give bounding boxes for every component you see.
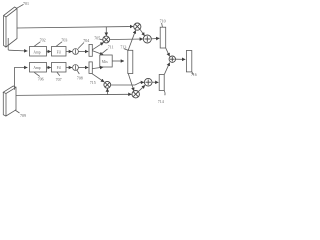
wire block 711 to phase block 713 (112, 60, 124, 62)
svg-text:702: 702 (40, 37, 46, 42)
svg-text:701: 701 (23, 1, 29, 6)
wire panel to amp 706 (15, 68, 28, 90)
block L (lower splitter) (89, 62, 92, 74)
final summer (169, 56, 175, 62)
wire 705 to mixer 709 (92, 42, 103, 49)
wire summer 1 to filter 710b (151, 37, 159, 40)
label 713 (120, 44, 128, 50)
label 703 (56, 37, 67, 46)
antenna panel 701 (4, 7, 17, 47)
wire summer 2 to bottom filter (152, 81, 158, 83)
svg-text:707: 707 (56, 77, 62, 82)
wire bottom filter to final summer (164, 63, 169, 75)
wire L to mixer C (92, 74, 104, 82)
output block 716 (186, 51, 191, 72)
wire 708 to block L (78, 67, 88, 69)
wire phase block 713 to mixer 710 (128, 30, 135, 50)
summer 1 (143, 35, 151, 43)
label 702 (34, 37, 45, 46)
label 716 (191, 72, 197, 77)
svg-text:713: 713 (120, 44, 126, 49)
antenna panel bottom (3, 86, 16, 116)
phase block 713 (128, 50, 133, 73)
wire panel 701 to amp 702 (8, 38, 27, 51)
svg-text:705: 705 (94, 35, 100, 40)
svg-text:703: 703 (61, 37, 67, 42)
filter block bottom right (159, 75, 164, 91)
wire 705 to block 711 (92, 51, 103, 55)
wire junction drop to mixer 709 (105, 27, 107, 36)
block 705 (upper splitter) (89, 44, 92, 56)
phase shifter 704 (73, 49, 79, 55)
filter 703 (52, 47, 67, 57)
mixer 710 (134, 23, 141, 30)
wire junction rise to mixer C (106, 89, 108, 95)
svg-text:709: 709 (20, 113, 26, 118)
svg-text:Amp: Amp (33, 66, 40, 70)
svg-text:706: 706 (38, 77, 44, 82)
svg-text:Mix: Mix (102, 60, 108, 64)
svg-text:Fil: Fil (57, 66, 61, 70)
label 709 bottom panel (15, 110, 26, 118)
wire L to block 711 (92, 67, 103, 69)
wire mixer 709 to summer (110, 38, 143, 41)
mixer 709 (103, 36, 110, 43)
summer 2 (144, 78, 152, 86)
svg-text:715: 715 (90, 80, 96, 85)
filter block top right (160, 27, 166, 48)
label 701 (17, 1, 29, 8)
label 704 (78, 38, 89, 49)
label 706 (34, 72, 43, 81)
label 708 (77, 70, 83, 80)
wire top line from panel 701 to mixer 710 (17, 27, 133, 29)
wire phase block 713 to mixer D (128, 73, 134, 91)
svg-text:Amp: Amp (33, 50, 40, 54)
wire 702 to 703 (47, 51, 51, 53)
svg-text:710: 710 (160, 18, 166, 23)
amplifier 706 (30, 63, 47, 73)
wire 703 to phase shifter 704 (66, 51, 72, 53)
wire final summer to output block 716 (176, 58, 186, 60)
label 710 (160, 18, 166, 27)
amplifier 702 (30, 47, 47, 57)
wire bottom line from panel to mixer D (16, 94, 132, 95)
svg-text:716: 716 (191, 73, 197, 77)
svg-text:708: 708 (77, 75, 83, 80)
wire 707 to phase shifter 708 (66, 67, 72, 69)
filter 707 (52, 63, 67, 73)
mixer D (132, 91, 139, 98)
wire mixer 710 to summer 1 (140, 29, 145, 36)
label 714 (158, 91, 165, 104)
wire mixer C to summer 2 (111, 82, 144, 85)
phase shifter 708 (73, 65, 79, 71)
wire top filter to final summer (166, 48, 170, 56)
svg-text:704: 704 (83, 38, 89, 43)
wire 706 to 707 (47, 67, 51, 69)
svg-text:714: 714 (158, 99, 164, 104)
mixer C (104, 81, 111, 88)
label 707 (56, 72, 62, 82)
wire mixer D to summer 2 (138, 85, 145, 91)
block 711 (Mix) (100, 55, 112, 67)
svg-text:Fil: Fil (57, 50, 61, 54)
wire 704 to block 705 (78, 51, 88, 53)
svg-text:711: 711 (108, 44, 114, 49)
